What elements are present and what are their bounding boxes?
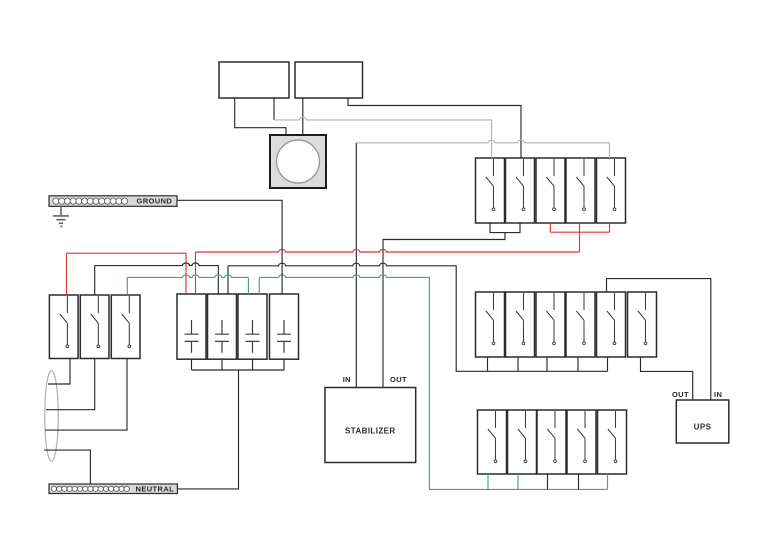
svg-text:IN: IN: [714, 390, 722, 399]
breaker B3 (bottom bank): [537, 410, 566, 474]
breaker T5 (top bank): [597, 158, 626, 223]
neutral bus bar: [49, 484, 177, 494]
svg-text:GROUND: GROUND: [137, 197, 173, 206]
energy meter M: [270, 135, 326, 188]
wire: box2 to breaker T2: [348, 98, 521, 158]
breaker M2 (middle bank): [506, 292, 535, 357]
wire: middle bank M5 top to UPS IN: [607, 279, 711, 400]
wire: box1 drop stub: [273, 98, 275, 120]
wire: bottom bank B4 bottom riser: [578, 474, 580, 489]
breaker B4 (bottom bank): [567, 410, 596, 474]
wire: bottom bank B3 bottom riser: [547, 474, 549, 489]
wire: middle bank M4 bottom riser: [577, 357, 579, 371]
capacitor C2: [208, 294, 237, 359]
breaker M4 (middle bank): [566, 292, 595, 357]
wire: bottom bank B1 bottom riser: [487, 474, 489, 489]
wire: red tie tap: [579, 232, 581, 252]
breaker B2 (bottom bank): [508, 410, 537, 474]
wire: capacitor C2 bottom riser: [221, 359, 223, 370]
svg-text:UPS: UPS: [694, 423, 712, 432]
wire: black bus C2 to middle bank: [228, 263, 608, 371]
wire: T1-T2 tie tap to stabilizer OUT: [383, 233, 505, 388]
capacitor C1: [177, 294, 206, 359]
capacitor C3: [238, 294, 267, 359]
wire: capacitor bottom tie bus: [192, 369, 285, 371]
wire: switch S2 to capacitor C2 (black): [95, 263, 219, 295]
breaker T1 (top bank): [476, 158, 505, 223]
breaker M1 (middle bank): [476, 292, 505, 357]
ground bus bar: [49, 196, 177, 207]
wire: T4 bottom drop (red): [579, 223, 581, 232]
utility service box 2: [295, 62, 363, 98]
breaker M5 (middle bank): [597, 292, 626, 357]
wire: switch S3 to CT: [45, 359, 127, 431]
breaker M6 (middle bank): [628, 292, 657, 357]
wire: box1 to meter: [235, 98, 286, 135]
stabilizer box: [325, 388, 416, 463]
switch S1 (incoming main): [49, 295, 78, 359]
wire: switch S3 to capacitor C3 (blue): [127, 275, 248, 295]
switch S3 (incoming main): [111, 295, 140, 359]
switch S2 (incoming main): [80, 295, 109, 359]
wire: bottom bank B5 bottom riser: [607, 474, 609, 489]
wire: switch S1 to capacitor C1 (red): [67, 253, 187, 295]
breaker B5 (bottom bank): [598, 410, 627, 474]
wire: T1-T2 bottom tie: [490, 223, 520, 233]
wire: meter line to breaker T1 (gray): [274, 117, 492, 158]
svg-text:IN: IN: [343, 375, 351, 384]
wire: ground bus to capacitor C4: [177, 200, 282, 294]
wire: capacitor bus to neutral bar: [177, 370, 238, 489]
CT coil (current transformer): [45, 371, 59, 462]
capacitor C4: [270, 294, 299, 359]
breaker M3 (middle bank): [536, 292, 565, 357]
breaker T2 (top bank): [506, 158, 535, 223]
wire: red phase bus to capacitor C1: [196, 249, 580, 294]
wire: T5 bottom drop (red): [609, 223, 611, 232]
wire: middle bank M1 bottom riser: [487, 357, 489, 371]
wire: stabilizer IN riser: [355, 143, 357, 388]
wire: T3 bottom drop (red): [549, 223, 551, 232]
wire: box2 to meter: [302, 98, 304, 135]
breaker T3 (top bank): [536, 158, 565, 223]
UPS box: [676, 400, 729, 443]
breaker T4 (top bank): [566, 158, 595, 223]
wire: middle bank M2 bottom riser: [517, 357, 519, 371]
wire: UPS OUT to breaker M6: [641, 357, 693, 400]
wire: middle bank M3 bottom riser: [546, 357, 548, 371]
wire: blue A drop into C3: [247, 277, 249, 294]
wire: neutral bar to CT: [44, 450, 90, 484]
breaker B1 (bottom bank): [478, 410, 507, 474]
wire: capacitor C3 bottom riser: [252, 359, 254, 370]
svg-text:OUT: OUT: [390, 375, 407, 384]
wire: T3-T5 red tie: [550, 231, 609, 233]
wire: blue bus C3 to bottom bank: [259, 275, 607, 490]
wire: switch S2 to CT: [46, 359, 95, 410]
svg-text:STABILIZER: STABILIZER: [345, 427, 396, 436]
wire: bottom bank B2 bottom riser: [517, 474, 519, 489]
svg-text:NEUTRAL: NEUTRAL: [136, 484, 175, 493]
wire: switch S1 to CT: [48, 359, 70, 385]
svg-text:OUT: OUT: [672, 390, 689, 399]
wire: capacitor C1 bottom riser: [191, 359, 193, 370]
wire: capacitor C4 bottom riser: [283, 359, 285, 370]
wire: middle bank M5 bottom riser: [607, 357, 609, 371]
earth ground symbol: [53, 206, 69, 226]
utility service box 1: [219, 62, 289, 98]
wire: stabilizer IN to breaker T5 (gray): [356, 140, 609, 158]
